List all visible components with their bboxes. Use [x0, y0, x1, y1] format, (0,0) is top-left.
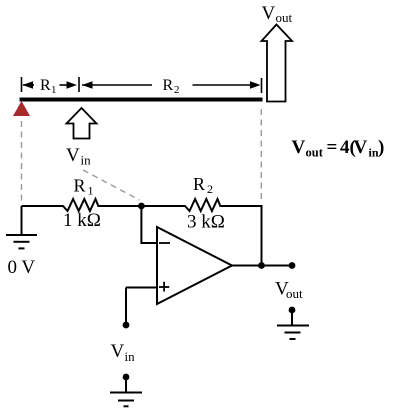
svg-text:V: V [262, 3, 276, 24]
svg-text:3 kΩ: 3 kΩ [187, 212, 225, 233]
svg-text:in: in [81, 153, 92, 168]
svg-text:R: R [74, 176, 86, 196]
svg-text:R: R [40, 77, 51, 94]
svg-text:1: 1 [51, 84, 57, 96]
svg-text:V: V [292, 137, 306, 158]
svg-text:out: out [306, 146, 324, 160]
svg-text:V: V [66, 145, 80, 166]
svg-text:2: 2 [207, 182, 213, 196]
svg-text:=: = [327, 137, 338, 158]
svg-text:in: in [125, 349, 136, 364]
svg-text:2: 2 [174, 84, 180, 96]
svg-text:R: R [193, 174, 205, 194]
svg-text:V: V [354, 137, 368, 158]
svg-text:R: R [163, 77, 174, 94]
svg-text:1 kΩ: 1 kΩ [63, 210, 101, 231]
svg-text:1: 1 [88, 184, 94, 198]
svg-text:out: out [286, 286, 303, 301]
svg-text:): ) [378, 137, 384, 158]
svg-text:V: V [111, 341, 125, 362]
svg-text:0 V: 0 V [8, 257, 36, 278]
svg-text:out: out [276, 10, 293, 25]
